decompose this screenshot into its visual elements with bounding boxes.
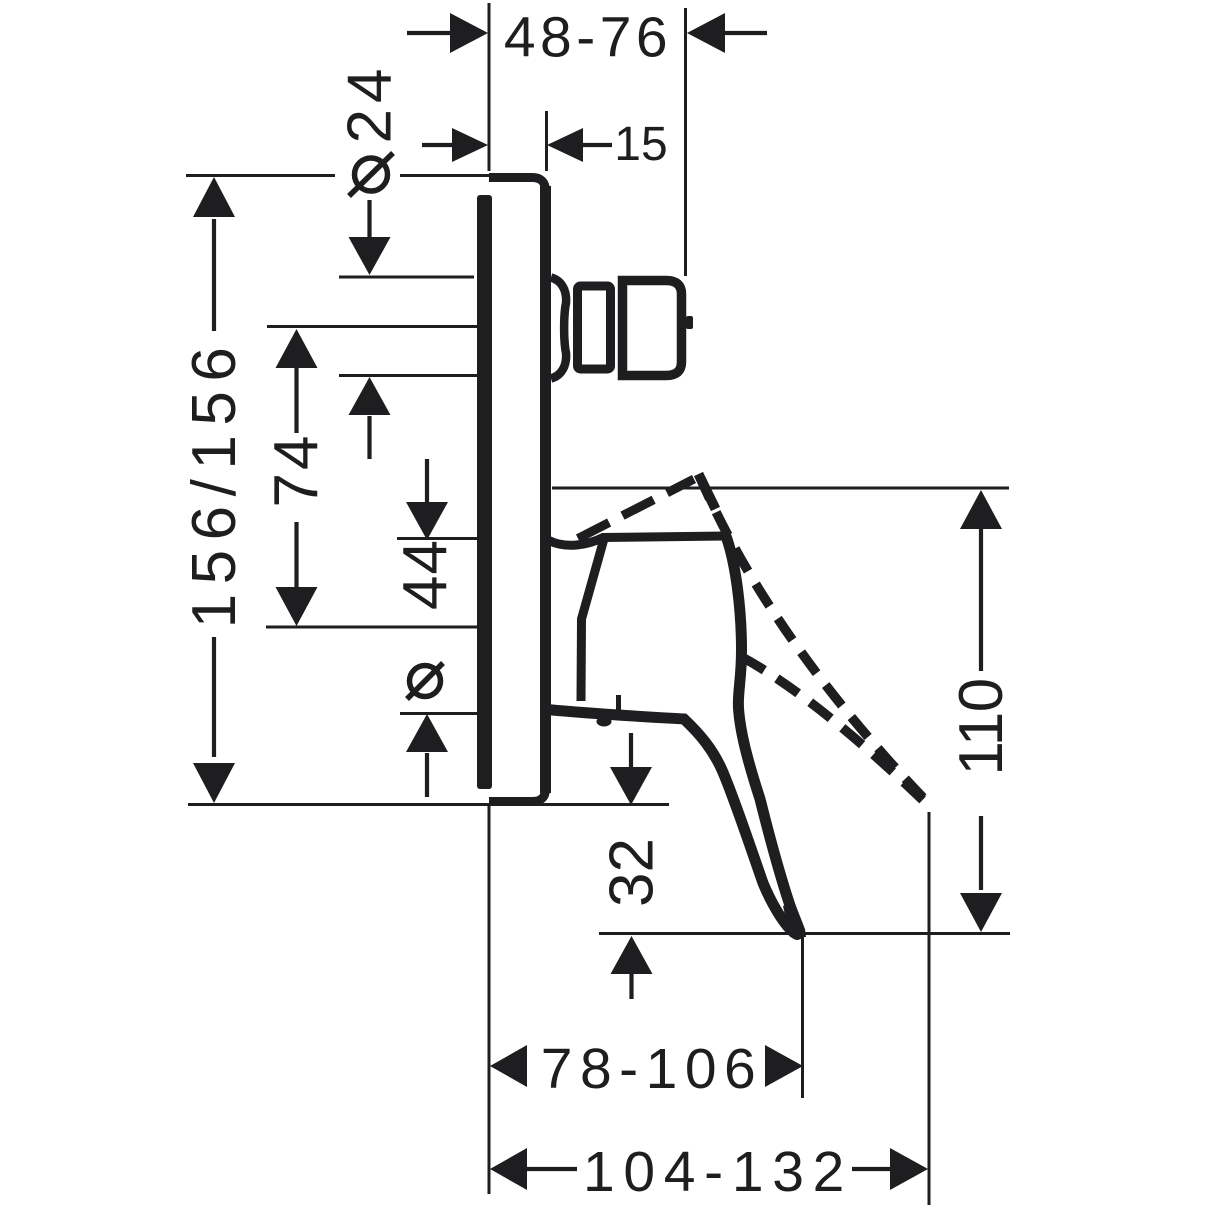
dimension 74 tails [294,367,298,593]
handle hub bottom collar and lever bottom edge [547,710,797,935]
wire: wall extension line upper [488,3,491,171]
handle hub bottom tick [616,695,621,710]
svg-text:110: 110 [947,678,1016,775]
arrow 78-106 left [490,1045,527,1087]
handle lever right edge [727,538,801,934]
spout adapter bulge [551,278,566,379]
arrow 104-132 right [890,1148,928,1190]
dimension D24 tails [367,200,371,459]
svg-text:24: 24 [336,63,405,144]
wire: dashed tip extension line [928,812,931,1205]
wire: raised handle top reference line [552,487,1009,490]
escutcheon plate outline [489,178,546,802]
wire: solid tip extension line [801,935,804,1098]
arrow 104-132 left [490,1148,527,1190]
dimension 48-76 tails [407,31,767,35]
arrow 110 top [960,490,1002,529]
label D of D44 : diameter symbol [407,663,443,699]
wire: sleeve top reference line [339,276,474,279]
escutcheon plate front face [540,186,551,793]
svg-text:44: 44 [391,539,460,610]
dimension 15 tails [422,143,612,147]
diameter symbol of D24 [349,153,393,196]
arrow 32 bottom [611,936,653,974]
arrow 15 right [547,128,583,162]
handle hub bottom screw bump [597,717,612,727]
wire: plate bottom reference line [188,803,669,806]
wire: hub centre reference line [266,626,477,629]
wire: handle tip reference line [599,932,1010,935]
handle lever tip [783,901,806,937]
raised handle dashed lower edge [742,657,933,810]
arrow 48-76 right [687,13,725,53]
dimension 110 tails [979,528,983,890]
wire: top reference line y175 [186,174,489,177]
arrow 15 left [452,128,488,162]
dimension 156/156 tails [212,219,216,757]
svg-text:15: 15 [614,118,667,171]
wire: sleeve bottom reference line [339,374,477,377]
escutcheon plate back bar [477,195,492,789]
arrow 74 bottom [276,587,318,626]
arrow 156 bottom [193,763,235,803]
svg-text:156/156: 156/156 [180,338,249,629]
spout sleeve [578,286,611,369]
arrow 74 top [276,329,318,368]
spout knob nub [686,316,693,329]
arrow D44 bottom [406,714,448,752]
handle hub left edge [581,537,605,701]
wire: knob front extension line [684,8,687,276]
arrow 78-106 right [765,1045,803,1087]
handle hub top edge [549,536,726,545]
arrow D24 lower [349,377,391,415]
wire: hub top reference line [397,537,477,540]
wire: spout centre reference line [267,325,477,328]
arrow D44 top [406,502,448,540]
arrow 32 top [610,767,652,805]
spout knob [623,281,682,376]
arrow D24 upper [349,237,391,275]
wire: plate front extension line [545,111,548,171]
raised handle apex dash [699,474,716,509]
wire: hub bottom reference line [400,712,477,715]
arrow 48-76 left [450,13,488,53]
dimension D44 tails [425,459,429,797]
wire: wall extension line lower [488,806,491,1194]
svg-text:104-132: 104-132 [583,1140,853,1204]
svg-text:74: 74 [262,433,331,508]
raised handle dashed rising edge [578,479,694,539]
svg-text:78-106: 78-106 [541,1037,764,1101]
svg-text:32: 32 [598,838,667,907]
raised handle dashed upper edge [699,475,933,808]
arrow 110 bottom [960,893,1002,932]
dimension 32 tails [629,733,634,999]
svg-text:48-76: 48-76 [504,6,672,70]
dimension 104-132 tails [524,1167,891,1171]
arrow 156 top [193,177,235,217]
